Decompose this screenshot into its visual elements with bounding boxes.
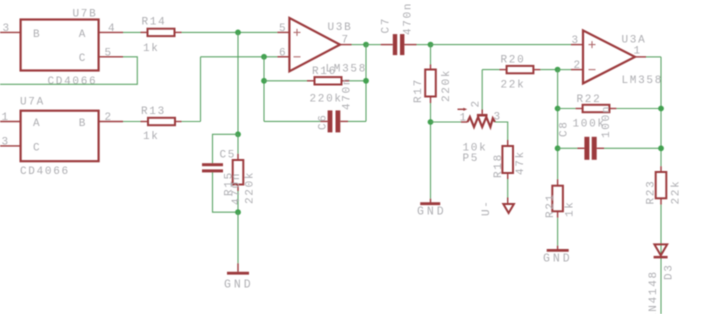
svg-text:C: C: [79, 53, 87, 65]
ground GND3: [543, 246, 573, 266]
node U3B output junction: [363, 42, 369, 48]
wire U3A output to right column: [646, 56, 661, 58]
svg-text:R14: R14: [142, 16, 167, 28]
svg-text:CD4066: CD4066: [20, 166, 70, 178]
wire C6 row left: [264, 120, 320, 122]
wire junction to U3A pin2: [558, 69, 571, 71]
capacitor C8: [577, 137, 604, 160]
wire U3B out junction to C7: [366, 44, 381, 46]
wire P5 pin3 to R18: [495, 122, 508, 140]
svg-text:U3A: U3A: [622, 35, 647, 47]
svg-text:A: A: [33, 118, 41, 130]
resistor R18: [502, 140, 513, 179]
svg-text:C6: C6: [317, 113, 329, 130]
wire R16 right: [349, 80, 366, 82]
svg-text:220k: 220k: [441, 69, 453, 102]
svg-text:5: 5: [279, 23, 287, 35]
svg-text:1: 1: [2, 112, 10, 124]
svg-text:C: C: [33, 142, 41, 154]
wire down to GND1: [237, 212, 239, 263]
svg-text:LM358: LM358: [622, 75, 664, 87]
wire to R16 left: [264, 80, 307, 82]
capacitor C6: [320, 110, 348, 132]
wire P5 wiper riser: [481, 70, 483, 110]
node C5/R15 top: [235, 131, 241, 137]
resistor R22: [576, 105, 617, 112]
svg-text:GND: GND: [543, 253, 573, 266]
node R16 right: [363, 78, 369, 84]
wire feedback left riser: [263, 57, 265, 122]
supply V- arrow: [503, 198, 514, 214]
wire C6 row right: [348, 120, 366, 122]
op-amp U3B: [277, 18, 351, 71]
node R22 left: [555, 106, 561, 112]
svg-text:D3: D3: [664, 263, 676, 280]
wire output riser down: [365, 45, 367, 122]
IC U7A: [0, 111, 123, 162]
svg-text:220k: 220k: [245, 171, 257, 204]
svg-text:GND: GND: [417, 206, 447, 219]
wire R23 down through D3 to bottom edge: [660, 205, 662, 314]
svg-text:470n: 470n: [342, 77, 354, 110]
resistor R13: [141, 118, 182, 125]
svg-text:GND: GND: [224, 279, 254, 292]
wire U7B pin5 net: [0, 57, 137, 85]
node C7 output junction: [428, 42, 434, 48]
wire junction down to R17: [430, 45, 432, 65]
svg-text:R13: R13: [141, 106, 166, 118]
svg-text:B: B: [79, 118, 87, 130]
svg-text:U7A: U7A: [20, 96, 45, 108]
node R22 right: [658, 106, 664, 112]
node R14/U3B+ junction: [235, 30, 241, 36]
wire C7 to junction: [417, 44, 431, 46]
svg-text:R16: R16: [312, 66, 337, 78]
resistor R15: [233, 134, 244, 212]
wire riser up to pin6 row: [200, 57, 202, 122]
svg-text:470n: 470n: [403, 2, 415, 35]
node P5 branch junction: [428, 119, 434, 125]
svg-text:R20: R20: [501, 55, 526, 67]
wire R20 to junction: [540, 69, 557, 71]
svg-text:R23: R23: [646, 180, 658, 205]
svg-text:C7: C7: [381, 17, 393, 34]
svg-text:U-: U-: [481, 199, 493, 216]
wire R14 to U3B pin5: [182, 31, 278, 33]
wire junction to P5 pin1: [431, 121, 462, 123]
wire C5 branch bottom: [213, 172, 239, 212]
node C8 left: [555, 145, 561, 151]
resistor R23: [656, 166, 667, 204]
potentiometer P5: [461, 110, 495, 128]
IC U7B: [0, 20, 123, 71]
wire to C8: [558, 147, 578, 149]
node C8 right: [658, 145, 664, 151]
svg-text:1: 1: [460, 113, 468, 125]
node R20/U3A- junction: [555, 67, 561, 73]
node C5/R15 bottom: [235, 209, 241, 215]
svg-text:R22: R22: [577, 94, 602, 106]
resistor R14: [141, 29, 182, 36]
svg-text:3: 3: [3, 23, 11, 35]
diode D3: [654, 244, 668, 258]
svg-text:1N4148: 1N4148: [648, 270, 660, 314]
wire junction to U3A pin3: [431, 44, 572, 46]
wire R18 to V-: [507, 179, 509, 198]
svg-text:A: A: [79, 29, 87, 41]
wire U3B output to junction: [352, 44, 367, 46]
svg-text:22k: 22k: [671, 180, 683, 205]
op-amp U3A: [571, 30, 646, 83]
resistor R16: [307, 77, 349, 84]
node R16 left: [261, 78, 267, 84]
wire wiper to R20: [482, 69, 499, 71]
svg-text:5: 5: [105, 47, 113, 59]
svg-text:100n: 100n: [601, 105, 613, 138]
node pin6/feedback junction: [261, 54, 267, 60]
svg-text:4: 4: [108, 23, 116, 35]
capacitor C7: [381, 34, 417, 55]
svg-text:1k: 1k: [565, 200, 577, 217]
wire output column riser: [660, 57, 662, 166]
svg-text:R17: R17: [413, 78, 425, 103]
svg-text:R18: R18: [493, 153, 505, 178]
svg-text:P5: P5: [463, 153, 480, 165]
wire U7B pin4 to R14: [123, 31, 141, 33]
svg-text:22k: 22k: [501, 80, 526, 92]
svg-text:C8: C8: [559, 120, 571, 137]
svg-text:47k: 47k: [515, 150, 527, 175]
svg-text:7: 7: [342, 35, 350, 47]
resistor R17: [425, 65, 436, 104]
svg-text:3: 3: [572, 35, 580, 47]
svg-text:CD4066: CD4066: [48, 76, 98, 88]
P5 adjust arrow: [458, 108, 468, 111]
wire C8 to output column: [604, 147, 661, 149]
svg-text:U7B: U7B: [73, 8, 98, 20]
ground GND1: [224, 263, 254, 291]
wire C5 branch top: [213, 134, 239, 163]
svg-text:3: 3: [2, 136, 10, 148]
svg-text:R21: R21: [545, 193, 557, 218]
svg-text:470n: 470n: [231, 172, 243, 205]
wire R17 down to GND2: [430, 103, 432, 199]
svg-text:1k: 1k: [143, 43, 160, 55]
wire R13 to riser: [182, 121, 201, 123]
wire to R22: [558, 108, 576, 110]
wire R22 to output column: [616, 108, 661, 110]
svg-text:2: 2: [471, 99, 483, 107]
resistor R20: [500, 66, 541, 73]
svg-text:1: 1: [634, 46, 642, 58]
svg-text:B: B: [33, 29, 41, 41]
svg-text:6: 6: [279, 47, 287, 59]
wire R21 to GND3: [557, 218, 559, 246]
wire U7A pin2 to R13: [123, 121, 141, 123]
ground GND2: [417, 199, 447, 219]
wire pin6 row to U3B pin6: [201, 56, 278, 58]
wire left column riser: [557, 70, 559, 180]
capacitor C5: [202, 163, 223, 172]
resistor R21: [552, 179, 563, 217]
wire junction down to C5/R15 block: [237, 32, 239, 134]
svg-text:220k: 220k: [310, 94, 343, 106]
svg-text:2: 2: [105, 112, 113, 124]
svg-text:U3B: U3B: [328, 22, 353, 34]
svg-text:1k: 1k: [143, 131, 160, 143]
svg-text:2: 2: [574, 60, 582, 72]
